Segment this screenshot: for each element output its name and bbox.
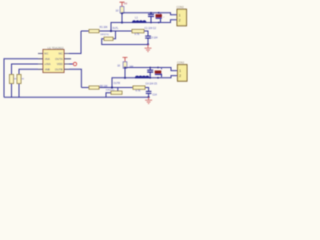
svg-text:-INB: -INB [44, 67, 50, 71]
svg-text:2: 2 [179, 74, 181, 78]
connector P1 [177, 9, 187, 26]
op-amp U1 body [43, 50, 64, 73]
capacitor C6 [146, 91, 152, 97]
wire pin4 to bottom channel [69, 69, 81, 87]
svg-text:+INA: +INA [44, 62, 50, 66]
inductor L2 [135, 76, 149, 78]
svg-text:4.7K: 4.7K [135, 33, 140, 36]
junction dot cap rail 2 [124, 66, 126, 68]
svg-text:R1 10K: R1 10K [100, 26, 108, 29]
wire R5 to ground [11, 84, 13, 98]
ferrite bead FB2 [123, 62, 127, 68]
ground rail wire [4, 96, 149, 98]
svg-text:NC: NC [59, 52, 63, 56]
svg-text:VDD: VDD [57, 62, 63, 66]
capacitor C5 polarized [155, 67, 162, 79]
junction ground rail [148, 96, 150, 98]
ferrite bead FB1 [120, 7, 124, 14]
svg-text:2: 2 [179, 19, 181, 23]
wire output rail [111, 20, 177, 31]
junction dot top rail [121, 12, 123, 14]
resistor R10 stub [117, 88, 119, 92]
svg-text:VM: VM [124, 2, 128, 5]
svg-text:C1 104 C2: C1 104 C2 [145, 27, 157, 30]
junction loop [147, 43, 149, 45]
wire left pin2 to ground [4, 59, 38, 97]
resistor R10 [111, 91, 122, 94]
svg-text:CON2: CON2 [177, 5, 185, 9]
wire node row top [81, 30, 132, 32]
svg-text:OUTA: OUTA [55, 57, 63, 61]
wire pin1 to top channel [69, 31, 81, 54]
svg-text:OUTR: OUTR [114, 83, 121, 85]
power port VM2 (red) [123, 57, 128, 61]
svg-text:OUTB: OUTB [55, 67, 63, 71]
wire cap rail 2 [125, 68, 178, 71]
inductor L1 [132, 21, 146, 23]
resistor R3 [132, 29, 144, 32]
svg-text:C3 104: C3 104 [150, 37, 158, 40]
ground symbol AGND (red) [145, 97, 152, 103]
connector P2 [178, 65, 188, 82]
capacitor C2 polarized [156, 14, 162, 23]
wire left pin3 [12, 64, 39, 75]
junction node A [110, 30, 112, 32]
resistor R2 stub [113, 31, 116, 39]
resistor R2 [104, 37, 113, 40]
svg-text:R8 10K: R8 10K [100, 85, 108, 88]
svg-text:1: 1 [179, 13, 181, 17]
wire VDD [69, 63, 73, 65]
wire output rail 2 [112, 76, 178, 88]
svg-text:-INA: -INA [44, 57, 50, 61]
svg-text:4.7K: 4.7K [136, 90, 141, 93]
resistor R9 [133, 86, 145, 89]
pin stubs left [38, 54, 43, 70]
no-ERC marker (red ring) [73, 62, 76, 65]
svg-text:C4 104 C5: C4 104 C5 [146, 83, 158, 86]
power port VM (red) top [120, 2, 125, 7]
wire R4 to ground [18, 84, 20, 98]
junction dots C2 [158, 12, 160, 14]
wire R9 to C6 [145, 88, 149, 92]
wire left pin4 [19, 69, 38, 74]
wire ferrite2 down [124, 68, 126, 78]
svg-text:OUTL: OUTL [112, 28, 119, 30]
junction dots C4 [149, 67, 151, 69]
svg-text:1: 1 [179, 69, 181, 73]
resistor R5 vertical [10, 75, 14, 84]
svg-text:CON2: CON2 [177, 61, 185, 65]
pin stubs right [64, 54, 71, 70]
capacitor C3 [145, 36, 151, 44]
capacitor C4 [147, 68, 153, 78]
svg-text:10K(1%): 10K(1%) [100, 34, 109, 36]
junction node B [111, 86, 113, 88]
resistor R1 input [89, 30, 99, 33]
wire cap rail top [122, 13, 177, 15]
junction dot output rail 2 [124, 77, 126, 79]
wire loop bottom [106, 93, 111, 98]
resistor R4 vertical [17, 75, 21, 84]
ground symbol (red) [145, 45, 152, 52]
junction dots C1 [150, 12, 152, 14]
wire ferrite to output rail [121, 13, 123, 23]
junction dot output rail [121, 21, 123, 23]
svg-text:C14: C14 [152, 93, 157, 96]
svg-text:NC: NC [44, 52, 48, 56]
wire node row bottom [81, 87, 133, 89]
capacitor C1 [148, 13, 154, 23]
wire loop [102, 39, 148, 45]
wire R3 to C3 [144, 31, 148, 36]
resistor R8 input [89, 86, 99, 89]
